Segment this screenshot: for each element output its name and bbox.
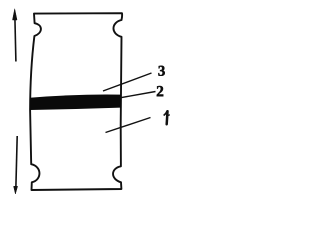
leader line to label 1 [106,118,151,133]
leader line to label 3 [103,73,152,91]
label 2 [157,86,163,96]
label 3 [158,66,164,76]
down arrow shaft [16,136,17,187]
down arrow head [14,186,18,194]
black band (element 2) [30,94,121,110]
label 1 [164,111,169,124]
up arrow shaft [15,18,16,62]
specimen body outline with four edge notches [30,13,122,190]
leader line to label 2 [120,92,156,98]
up arrow head [13,9,18,20]
